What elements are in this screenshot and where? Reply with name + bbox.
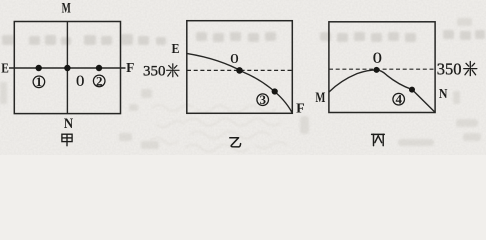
dashed 350m line (panel 2) <box>187 69 292 71</box>
dashed 350m line (panel 3) <box>329 68 435 70</box>
box panel-1 frame <box>14 22 120 114</box>
svg-text:E: E <box>1 60 9 75</box>
svg-text:3: 3 <box>259 92 266 107</box>
circled 1 <box>33 74 45 89</box>
node dot 3 (panel 2) <box>272 88 278 94</box>
svg-text:1: 1 <box>36 74 43 89</box>
node dot left <box>36 65 42 71</box>
svg-text:4: 4 <box>395 92 402 107</box>
svg-text:350: 350 <box>143 64 166 80</box>
node dot right <box>96 65 102 71</box>
svg-text:O: O <box>76 73 84 90</box>
CJK mi (米) unit (panel 3) <box>464 62 477 76</box>
CJK mi (米) unit (panel 2) <box>167 64 179 77</box>
svg-text:350: 350 <box>437 59 462 78</box>
terrain curve M to N (panel 3) <box>329 70 435 112</box>
terrain curve E to F (panel 2) <box>187 54 292 113</box>
paper background <box>0 0 486 155</box>
CJK bing (丙) caption <box>372 134 385 145</box>
circled 4 <box>393 92 405 107</box>
wire vertical M-N line <box>66 22 68 114</box>
faint bleed-through text row (top) <box>2 30 485 45</box>
CJK jia (甲) caption <box>62 134 72 146</box>
box panel-3 frame <box>329 22 435 113</box>
svg-text:E: E <box>172 41 180 56</box>
faint bleed-through marks (misc) <box>0 18 481 149</box>
svg-text:N: N <box>64 116 74 132</box>
circled 2 <box>93 73 105 88</box>
svg-text:F: F <box>126 60 134 75</box>
svg-text:O: O <box>230 52 238 67</box>
svg-text:M: M <box>315 90 325 106</box>
svg-text:N: N <box>439 87 448 102</box>
svg-text:M: M <box>62 1 71 17</box>
node dot O (panel 2) <box>236 67 243 74</box>
node dot O (panel 3) <box>374 67 380 73</box>
wire horizontal E-F line <box>9 67 126 69</box>
svg-text:2: 2 <box>96 73 103 88</box>
node dot 4 (panel 3) <box>409 87 415 93</box>
box panel-2 frame <box>187 21 292 114</box>
faint watermark squiggles under panel 2 <box>150 105 287 152</box>
svg-text:F: F <box>296 102 305 117</box>
scan grain <box>0 0 486 155</box>
CJK yi (乙) caption <box>230 138 241 147</box>
svg-text:O: O <box>373 50 382 67</box>
node dot O center <box>64 65 70 71</box>
circled 3 <box>257 92 269 107</box>
